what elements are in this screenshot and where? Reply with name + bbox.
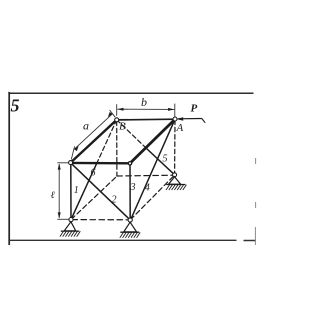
svg-text:a: a (83, 119, 89, 133)
dimension l extension line top (57, 162, 70, 164)
rod 6 hidden part under plate (dashed) (97, 120, 117, 163)
plate edge M-L (71, 162, 130, 165)
rod 4 A-M' (131, 119, 176, 220)
arrowhead a upper-right (107, 112, 113, 118)
force P arrowhead at A (176, 117, 183, 121)
frame bottom border (8, 239, 256, 241)
frame top border (8, 92, 253, 94)
rod 6 visible part B-L' (71, 163, 97, 220)
arrowhead l bottom (58, 212, 61, 218)
support at L' triangle (64, 222, 76, 231)
hidden edge A-A' (dashed vertical) (174, 120, 176, 174)
node A' (173, 173, 177, 177)
support at A' ground line (166, 184, 185, 186)
dimension b extension line at B (116, 104, 118, 116)
svg-text:A: A (176, 122, 184, 134)
arrowhead a lower-left (74, 146, 80, 152)
force P tail hook (202, 119, 205, 123)
rod 3 M-M' (129, 163, 131, 220)
svg-text:b: b (141, 95, 147, 109)
support at A' hatching (166, 185, 186, 190)
frame right border (faint) (254, 158, 256, 245)
plate edge A-M (130, 119, 175, 163)
svg-text:5: 5 (11, 96, 20, 116)
dimension b extension line at A (174, 104, 176, 117)
plate edge B-A (117, 118, 175, 121)
svg-text:B: B (119, 121, 126, 133)
rod 5 hidden part under plate (dashed) (117, 120, 146, 148)
node A (173, 117, 177, 121)
svg-text:2: 2 (112, 195, 117, 206)
node B (115, 118, 119, 122)
support at M' triangle (124, 222, 137, 232)
support at L' hatching (60, 231, 80, 236)
plate edge L-B (71, 120, 117, 163)
node L' (69, 218, 73, 222)
node M' (128, 218, 132, 222)
support at L' ground line (61, 230, 79, 232)
dimension line b (117, 108, 174, 110)
rod 2 L-M' (71, 163, 131, 220)
rod 1 L-L' (70, 163, 72, 220)
svg-text:6: 6 (91, 168, 96, 179)
hidden edge L'-B' (dashed diagonal) (71, 176, 117, 219)
svg-text:3: 3 (130, 182, 136, 193)
arrowhead l top (58, 163, 61, 169)
svg-text:P: P (191, 103, 198, 115)
svg-text:5: 5 (163, 154, 168, 165)
force P arrow line (178, 118, 202, 120)
rod 5 visible part B-A' (146, 148, 175, 175)
hidden edge B-B' (dashed vertical) (116, 121, 118, 176)
dimension line a (74, 114, 112, 149)
dimension line l (58, 164, 60, 218)
hidden edge L'-M' (dashed horizontal) (72, 219, 129, 221)
dimension l extension line bottom (57, 218, 70, 220)
svg-text:1: 1 (74, 185, 79, 196)
node L (69, 161, 73, 165)
frame left border (8, 92, 10, 245)
arrowhead b left (117, 108, 123, 111)
hidden edge B'-A' (dashed horizontal) (117, 174, 174, 177)
dimension a extension line at L (71, 146, 74, 159)
support at A' triangle (169, 177, 181, 184)
support at M' ground line (120, 231, 139, 233)
support at M' hatching (120, 232, 140, 237)
svg-text:4: 4 (145, 182, 150, 193)
arrowhead b right (168, 108, 174, 111)
dimension a extension line at B (110, 110, 116, 117)
hidden edge M'-A' (dashed diagonal) (130, 175, 174, 220)
node M (128, 162, 131, 165)
svg-text:ℓ: ℓ (51, 190, 55, 201)
